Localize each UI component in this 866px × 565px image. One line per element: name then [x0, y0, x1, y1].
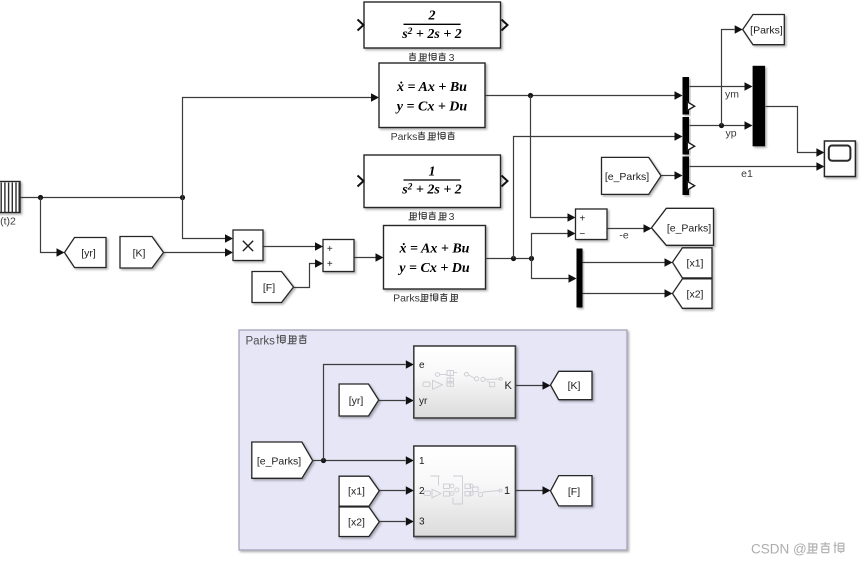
svg-text:[K]: [K] — [133, 248, 146, 260]
svg-text:+: + — [579, 213, 585, 224]
wire: branch up to controller K subsystem e input — [324, 365, 406, 461]
Goto tag [e_Parks] — [652, 208, 714, 245]
wire: [K] to product input 2 — [164, 252, 226, 254]
arrowhead into output mux input 2 — [745, 121, 753, 129]
arrowhead into [K] — [543, 381, 551, 389]
svg-text:1: 1 — [504, 485, 510, 497]
junction dot at branch to [yr] — [38, 195, 43, 200]
svg-text:[F]: [F] — [568, 486, 580, 498]
junction dot on yp wire to [Parks] — [719, 123, 724, 128]
wire: demux output 2 to Goto [x2] — [583, 293, 665, 295]
wire: error sum output -e — [608, 228, 644, 230]
From tag [K] — [120, 237, 164, 269]
svg-text:-e: -e — [619, 230, 628, 242]
arrowhead into product input 2 — [225, 248, 233, 256]
From tag [e_Parks] bottom — [252, 442, 313, 478]
svg-text:[e_Parks]: [e_Parks] — [667, 223, 711, 235]
Goto tag [K] bottom — [551, 371, 593, 399]
Goto tag [yr] — [65, 238, 107, 268]
wire: K output to Goto [K] — [516, 385, 543, 387]
wire: yp to output mux input 2 — [690, 125, 745, 127]
svg-text:[Parks]: [Parks] — [750, 24, 783, 36]
svg-text:+: + — [327, 259, 333, 270]
arrowhead into [x1] — [665, 258, 673, 266]
scope block — [824, 141, 855, 177]
selector bar 1 — [683, 77, 690, 115]
junction dot on ym wire — [528, 93, 533, 98]
svg-text:1: 1 — [429, 165, 436, 180]
arrowhead into selector bar 3 — [675, 171, 683, 179]
scope screen — [829, 146, 851, 161]
arrowhead into Parks reference model — [371, 93, 379, 101]
svg-text:3: 3 — [419, 517, 425, 528]
arrowhead into sum input 2 — [315, 259, 323, 267]
wire: [e_Parks] to selector bar 3 — [662, 175, 675, 177]
svg-text:[e_Parks]: [e_Parks] — [605, 171, 649, 183]
label Parks参考模型 — [391, 131, 455, 143]
svg-text:3: 3 — [449, 211, 455, 223]
svg-text:1: 1 — [419, 456, 425, 467]
sum block ++ — [323, 240, 354, 272]
arrowhead into Parks plant — [376, 253, 384, 261]
From tag [x2] bottom — [339, 507, 379, 537]
wire: ym to output mux input 1 — [690, 86, 745, 88]
selector bar 2 — [683, 117, 690, 155]
svg-text:e1: e1 — [741, 168, 753, 180]
arrowhead into [yr] — [57, 248, 65, 256]
svg-text:[yr]: [yr] — [349, 395, 364, 407]
svg-text:ẋ = Ax + Bu: ẋ = Ax + Bu — [396, 80, 467, 95]
svg-text:[x1]: [x1] — [687, 257, 704, 269]
junction dot on e_Parks wire — [321, 458, 326, 463]
arrowhead into [x2] — [665, 289, 673, 297]
wire: branch down to Goto [yr] — [41, 198, 57, 253]
svg-text:2: 2 — [419, 486, 425, 497]
svg-text:+: + — [327, 244, 333, 255]
arrowhead into error sum + — [568, 213, 576, 221]
svg-text:[yr]: [yr] — [81, 248, 96, 260]
wire: ym branch down to error sum + input — [531, 96, 568, 218]
arrowhead into [Parks] — [735, 25, 743, 33]
svg-text:CSDN @: CSDN @ — [751, 542, 807, 557]
arrowhead into demux — [569, 274, 577, 282]
wire: [x2] to controller F subsystem input 3 — [380, 521, 406, 523]
wire: Parks reference model output ym — [486, 95, 675, 97]
svg-text:y = Cx + Du: y = Cx + Du — [395, 100, 468, 115]
svg-text:Parks: Parks — [391, 131, 418, 143]
svg-text:[K]: [K] — [568, 380, 581, 392]
unconnected output port chevron of bar 2 — [687, 142, 694, 151]
label 被控对象3 — [409, 211, 455, 223]
arrowhead into e input — [406, 360, 414, 368]
svg-text:yp: yp — [725, 128, 736, 140]
wire: F output to Goto [F] — [516, 490, 543, 492]
signal generator source block (t)2 — [0, 182, 20, 213]
svg-text:[e_Parks]: [e_Parks] — [257, 456, 301, 468]
From tag [e_Parks] feeding selector bar 3 — [602, 157, 662, 194]
arrowhead into output mux input 1 — [745, 82, 753, 90]
wire: yp branch up to error sum - input — [532, 234, 568, 259]
label Parks被控对象 — [393, 293, 458, 305]
unconnected output port chevron of bar 3 — [687, 181, 694, 190]
arrowhead into selector bar 2 — [675, 132, 683, 140]
svg-text:[x1]: [x1] — [348, 486, 365, 498]
svg-text:ym: ym — [725, 89, 739, 101]
wire: product output to sum input 1 — [264, 246, 316, 248]
Goto tag [Parks] — [743, 15, 785, 45]
watermark CSDN @鸽鸣顾 — [751, 542, 844, 557]
svg-text:ẋ = Ax + Bu: ẋ = Ax + Bu — [399, 242, 470, 257]
svg-text:y = Cx + Du: y = Cx + Du — [397, 261, 470, 276]
wire: e1 to scope input 2 — [690, 166, 817, 168]
wire: branch up to Goto [Parks] — [722, 30, 735, 126]
arrowhead into input 3 — [406, 517, 414, 525]
selector bar 3 — [683, 157, 690, 196]
controller subsystem 2 (outputs F) — [414, 446, 516, 537]
svg-text:e: e — [419, 360, 425, 371]
junction dot yp to selector bar 2 — [511, 256, 516, 261]
Parks controller subsystem area background — [239, 330, 627, 550]
label 参考模型3 — [409, 52, 455, 64]
From tag [x1] bottom — [339, 476, 379, 506]
From tag [yr] bottom — [339, 384, 379, 416]
product block (multiply) — [233, 230, 263, 261]
controller subsystem 1 (outputs K) — [414, 346, 516, 418]
arrowhead into sum input 1 — [315, 242, 323, 250]
arrowhead into [F] — [543, 486, 551, 494]
svg-text:−: − — [579, 229, 585, 240]
wire: generator output to T junction — [21, 197, 183, 199]
wire: yp branch up to selector bar 2 — [514, 137, 675, 259]
wire: down-branch to product block input 1 — [183, 198, 226, 239]
wire: [F] to sum input 2 — [294, 264, 316, 288]
demux bar (states x1 x2) — [577, 249, 583, 308]
Goto tag [x2] — [673, 279, 713, 308]
subsystem 1 preview sketch — [423, 371, 502, 390]
arrowhead into input 2 — [406, 486, 414, 494]
unconnected output port chevron of bar 1 — [687, 102, 694, 111]
wire: [yr] to controller K subsystem yr input — [379, 400, 406, 402]
transfer function block 被控对象3 : 1/(s^2+2s+2) — [364, 155, 501, 208]
wire: [x1] to controller F subsystem input 2 — [380, 490, 406, 492]
wire: output mux to scope input 1 — [766, 107, 817, 153]
arrowhead into scope input 2 — [816, 162, 824, 170]
svg-text:2: 2 — [428, 9, 436, 24]
junction dot main T — [180, 195, 185, 200]
transfer function block 参考模型3 : 2/(s^2+2s+2) — [364, 2, 501, 48]
svg-text:[x2]: [x2] — [687, 289, 704, 301]
error sum block +- — [576, 209, 608, 240]
arrowhead into Goto [e_Parks] — [644, 224, 652, 232]
arrowhead into input 1 — [406, 456, 414, 464]
arrowhead into selector bar 1 — [675, 91, 683, 99]
svg-text:Parks: Parks — [246, 336, 276, 348]
arrowhead into error sum - — [568, 229, 576, 237]
svg-text:[F]: [F] — [263, 282, 275, 294]
wire: demux output 1 to Goto [x1] — [583, 262, 665, 264]
Goto tag [x1] — [673, 248, 713, 278]
svg-text:K: K — [505, 380, 513, 392]
area title Parks控制器 — [246, 335, 307, 348]
From tag [F] — [252, 272, 294, 303]
svg-text:3: 3 — [449, 52, 455, 64]
subsystem 2 preview sketch — [424, 476, 502, 504]
wire: [e_Parks] to controller F subsystem input 1 — [313, 460, 406, 462]
svg-text:Parks: Parks — [393, 293, 420, 305]
svg-text:yr: yr — [419, 396, 428, 407]
svg-text:[x2]: [x2] — [348, 517, 365, 529]
state-space block Parks被控对象 — [384, 226, 486, 290]
state-space block Parks参考模型 — [379, 63, 485, 128]
svg-text:(t)2: (t)2 — [0, 216, 16, 228]
junction dot yp to error sum and demux — [529, 256, 534, 261]
output mux — [753, 66, 766, 147]
wire: up-branch to Parks reference model input — [183, 98, 372, 198]
wire: yp branch down to demux input — [532, 259, 569, 279]
Goto tag [F] bottom — [551, 476, 593, 506]
arrowhead into yr input — [406, 396, 414, 404]
wire: Parks plant output yp — [486, 258, 532, 260]
arrowhead into scope input 1 — [816, 148, 824, 156]
arrowhead into product input 1 — [225, 234, 233, 242]
wire: sum output to Parks plant input — [355, 257, 376, 259]
